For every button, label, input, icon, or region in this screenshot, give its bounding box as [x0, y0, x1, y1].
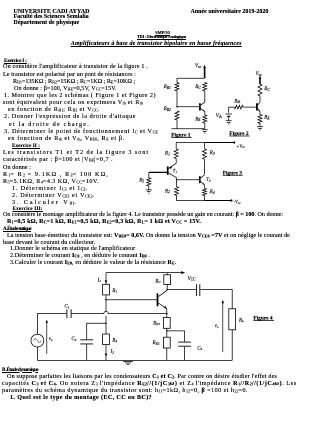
figure 4: wire RE2 to bottom rail: [166, 348, 168, 360]
figure 3: T2 emitter wire: [204, 185, 206, 188]
wire C2 to load branch: [200, 290, 232, 309]
wire collector to C2: [167, 289, 196, 291]
transistor T1 (pnp): [168, 163, 177, 178]
figure 4: wire RC to collector node: [166, 284, 168, 289]
label RE1 fig4: [152, 321, 160, 326]
ground under Vth: [226, 121, 232, 124]
figure 1: top rail wire: [177, 77, 205, 79]
label vs output arrow: [215, 300, 224, 352]
svg-text:RC: RC: [194, 85, 201, 90]
resistor R3 fig3: [203, 149, 207, 159]
wire base branch to C4: [87, 323, 106, 339]
svg-text:T1: T1: [173, 168, 178, 174]
label C1: [64, 305, 69, 310]
figure 1: Vcc label: [195, 64, 202, 69]
transistor Q fig4 (npn): [158, 291, 167, 309]
capacitor C2: [197, 284, 200, 296]
svg-text:C1: C1: [64, 305, 69, 310]
wire base node to transistor base: [106, 299, 157, 301]
label R1 fig3: [164, 152, 170, 157]
figure 2: emitter wire: [259, 112, 261, 115]
label I2: [110, 350, 115, 355]
svg-text:RL: RL: [238, 318, 244, 323]
svg-text:T2: T2: [206, 177, 211, 183]
label RC fig4: [154, 279, 161, 284]
label RB2: [163, 107, 171, 112]
svg-text:RE: RE: [263, 116, 270, 121]
label RL fig4: [238, 318, 244, 323]
figure 2: wire RE to ground: [259, 124, 261, 127]
figure 2: wire Vth to ground: [228, 117, 230, 121]
figure 3: T1 base input lead: [149, 171, 167, 173]
node emitter fig4: [166, 313, 168, 315]
label ve input arrow: [46, 320, 53, 354]
svg-text:Rth: Rth: [233, 99, 240, 104]
label Rth: [233, 99, 240, 104]
figure 4: collector wire: [166, 290, 168, 291]
label Figure 2: [229, 131, 249, 137]
figure 4: wire RE1 to RE2: [166, 328, 168, 337]
figure 4: bottom rail wire: [37, 359, 232, 361]
figure 4: wire source to C1: [37, 314, 66, 335]
node RE1-RE2 junction: [166, 330, 168, 332]
svg-text:ve: ve: [49, 337, 53, 342]
label I1: [97, 278, 102, 283]
resistor RE fig2: [258, 115, 262, 124]
node base divider fig1: [176, 106, 178, 108]
figure 3: wire R4 to bottom rail: [204, 196, 206, 201]
figure 1: wire RE to bottom rail: [204, 123, 206, 129]
label RB1: [163, 85, 171, 90]
resistor Rth: [234, 105, 243, 109]
resistor R5 fig3: [147, 178, 151, 186]
label R2 fig4: [111, 338, 117, 343]
svg-text:RB2: RB2: [163, 107, 171, 112]
label T2: [206, 177, 211, 183]
svg-text:I1: I1: [97, 278, 102, 283]
figure 1: wire RB1 to base node: [176, 91, 178, 107]
svg-text:RE2: RE2: [152, 341, 160, 346]
ground fig4: [123, 361, 133, 364]
resistor RL fig4 (box): [229, 309, 236, 330]
ground under RE fig2: [257, 127, 263, 130]
figure 4: wire rail to RC: [166, 273, 168, 275]
capacitor C3: [178, 342, 191, 346]
capacitor C1: [67, 309, 71, 318]
figure 4: wire C4 to bottom rail: [86, 344, 88, 360]
label C3: [197, 346, 202, 351]
label Vcc fig4: [188, 277, 196, 282]
svg-text:R4: R4: [209, 190, 215, 195]
svg-text:R2: R2: [164, 189, 170, 194]
ground under R5 fig3: [146, 190, 152, 193]
svg-text:Vcc: Vcc: [195, 64, 202, 69]
label Vth: [216, 114, 222, 119]
resistor R2 fig4 (box): [103, 334, 110, 345]
figure 4: input wire hop over base branch: [104, 311, 108, 313]
figure 3: wire R3 to T2 collector: [204, 143, 206, 175]
figure 1: emitter wire: [204, 112, 206, 115]
resistor RE2 fig4 (box): [163, 337, 170, 348]
node base fig4: [105, 299, 107, 301]
figure 1: Vcc terminal arrow: [203, 65, 206, 78]
svg-text:R1: R1: [111, 289, 117, 294]
label R3 fig3: [209, 151, 215, 156]
label -Vcc: [234, 199, 242, 205]
svg-text:R5: R5: [138, 179, 144, 184]
label Figure 3: [223, 171, 243, 177]
capacitor C4: [80, 340, 93, 344]
figure 4: wire base branch to R2: [105, 323, 107, 334]
battery Vth: [226, 114, 232, 116]
resistor RE fig1: [203, 115, 207, 123]
figure 1: left branch top wire: [176, 78, 178, 82]
figure 2: wire RC to collector: [259, 96, 261, 102]
label +Vcc: [236, 143, 245, 149]
figure 3: wire base lead to R5: [148, 172, 150, 177]
figure 1: bottom rail wire: [172, 128, 205, 130]
label RE fig2: [263, 116, 270, 121]
figure 3: wire down to R2: [176, 180, 178, 187]
label RE fig1: [194, 117, 201, 122]
label Figure 1: [171, 133, 191, 139]
figure 4: wire rail to R1 with I1 arrow: [105, 273, 108, 285]
resistor R1 fig3: [174, 149, 178, 159]
label R2 fig3: [164, 189, 170, 194]
svg-text:+Vcc: +Vcc: [236, 143, 245, 149]
figure 2: Vcc terminal arrow: [259, 75, 262, 84]
wire junction to C3: [167, 331, 185, 342]
label C4: [71, 337, 76, 342]
resistor R1 fig4 (box): [103, 284, 110, 295]
figure 4: emitter wire: [166, 309, 168, 318]
figure 4: top rail wire: [106, 272, 182, 274]
figure 4: wire source to bottom rail: [36, 347, 38, 360]
figure 3: left branch top wire: [175, 143, 177, 150]
label T1: [173, 168, 178, 174]
svg-text:Vcc: Vcc: [256, 72, 263, 77]
node T1 collector junction: [176, 179, 178, 181]
node collector fig4: [166, 289, 168, 291]
resistor RB2: [175, 111, 179, 120]
node -Vcc terminal: [230, 199, 232, 201]
svg-text:VCC: VCC: [188, 277, 196, 282]
svg-text:RE: RE: [194, 117, 201, 122]
transistor Q1 fig2: [257, 102, 260, 112]
figure 3: top rail wire: [176, 142, 233, 144]
figure 4: wire RL to bottom rail: [231, 330, 233, 361]
figure 3: wire R5 to ground: [148, 186, 150, 190]
label R1 fig4: [111, 289, 117, 294]
figure 4: wire C1 to emitter node: [72, 313, 167, 315]
figure 1: base wire: [177, 106, 199, 108]
transistor T2 (npn): [200, 175, 205, 185]
node C4 junction: [105, 323, 107, 325]
figure 3: wire R2 to bottom rail: [176, 196, 178, 201]
label R5 fig3: [138, 179, 144, 184]
svg-text:Vth: Vth: [216, 114, 222, 119]
figure 4: Vcc rail end arrow: [181, 271, 185, 274]
svg-text:vs: vs: [215, 324, 219, 329]
node +Vcc terminal: [233, 141, 235, 143]
svg-text:I2: I2: [110, 350, 115, 355]
svg-text:RC: RC: [154, 279, 161, 284]
figure 4: wire R2 to bottom rail with I2 arrow: [105, 345, 108, 361]
figure 3: wire R1 to T1 emitter: [175, 159, 177, 164]
figure 2: base wire: [243, 106, 257, 108]
svg-text:RE1: RE1: [152, 321, 160, 326]
svg-text:R3: R3: [209, 151, 215, 156]
svg-text:RC: RC: [263, 87, 270, 92]
ground fig1: [202, 130, 208, 133]
wire T1 collector to T2 base: [177, 179, 200, 181]
resistor R2 fig3: [175, 187, 179, 196]
resistor RE1 fig4 (box): [163, 318, 170, 329]
figure 2: wire Rth to corner: [229, 107, 235, 113]
resistor RC fig2: [258, 84, 262, 96]
svg-text:-Vcc: -Vcc: [234, 199, 242, 205]
resistor R4 fig3: [203, 188, 207, 195]
transistor Q1 fig1: [200, 102, 205, 111]
figure 2: Vcc label: [256, 72, 263, 77]
figure 1: collector wire: [204, 91, 206, 102]
label Figure 4: [253, 316, 274, 322]
resistor RB1: [175, 83, 179, 92]
svg-text:R2: R2: [111, 338, 117, 343]
figure 4: base branch vertical: [105, 300, 107, 324]
figure 4: wire C3 to bottom rail: [184, 347, 186, 361]
label R4 fig3: [209, 190, 215, 195]
svg-text:R1: R1: [164, 152, 170, 157]
svg-text:RB1: RB1: [163, 85, 171, 90]
figure 4: wire R1 to base node: [105, 295, 107, 300]
svg-text:C3: C3: [197, 346, 202, 351]
figure 1: wire RB2 to bottom rail: [176, 120, 178, 129]
svg-text:C4: C4: [71, 337, 76, 342]
label RC fig2: [263, 87, 270, 92]
label RC fig1: [194, 85, 201, 90]
source vs (sine generator): [31, 334, 44, 347]
resistor RC fig4 (box): [164, 275, 171, 285]
figure 3: T1 collector wire down: [176, 178, 178, 180]
label RE2 fig4: [152, 341, 160, 346]
resistor RC fig1: [203, 83, 207, 92]
figure 3: bottom rail wire: [176, 200, 230, 202]
